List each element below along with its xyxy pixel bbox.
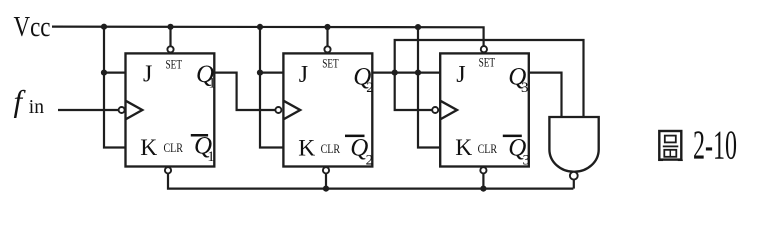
SET bubble U1: [167, 46, 173, 52]
wire J/K rail FF1: [104, 27, 126, 148]
NAND output bubble: [570, 172, 578, 180]
svg-text:1: 1: [207, 149, 215, 165]
wire Q2 to J input FF3: [372, 71, 440, 73]
svg-text:in: in: [29, 97, 44, 118]
svg-text:SET: SET: [479, 55, 496, 70]
svg-text:1: 1: [208, 76, 216, 92]
junction dot Q2 branch: [392, 70, 398, 76]
wire Q2 to clock FF3: [395, 73, 433, 110]
wire J/K rail FF2: [260, 27, 283, 148]
svg-text:2-10: 2-10: [693, 122, 737, 168]
svg-text:K: K: [298, 136, 315, 162]
wire SET stub FF1: [169, 27, 171, 47]
CLR bubble U3: [480, 167, 486, 173]
junction dot Vcc-SET1: [167, 24, 173, 30]
caption figure character (CJK tu) drawn as strokes: [658, 131, 683, 160]
clock bubble U1: [119, 107, 125, 113]
wire Q2 to NAND input: [395, 40, 584, 117]
junction dot Vcc-SET2: [324, 24, 330, 30]
svg-text:CLR: CLR: [164, 140, 184, 155]
wire fin to clock FF1: [58, 109, 119, 111]
svg-text:CLR: CLR: [478, 141, 498, 156]
SET bubble U2: [324, 46, 330, 52]
svg-text:3: 3: [521, 80, 529, 96]
NAND gate U4: [549, 117, 598, 172]
junction dot Vcc-rail2: [257, 24, 263, 30]
clock triangle U3: [440, 101, 457, 120]
svg-text:J: J: [299, 62, 308, 88]
label Q2bar: [345, 135, 365, 138]
wire Vcc rail: [52, 27, 484, 47]
svg-text:f: f: [14, 84, 27, 119]
svg-text:3: 3: [523, 153, 531, 169]
svg-text:J: J: [456, 62, 465, 88]
junction dot CLR2: [323, 186, 329, 192]
junction dot Vcc-rail1: [101, 24, 107, 30]
wire J input FF1: [104, 71, 126, 73]
flip-flop U3 box: [440, 53, 529, 166]
wire NAND output: [573, 180, 575, 189]
svg-text:SET: SET: [166, 56, 183, 71]
junction dot CLR3: [480, 186, 486, 192]
CLR bubble U2: [323, 167, 329, 173]
wire Q3 to NAND input: [529, 73, 562, 117]
svg-text:CLR: CLR: [321, 141, 341, 156]
clock bubble U3: [432, 107, 438, 113]
label Q3bar: [503, 135, 522, 138]
wire CLR drop FF1: [168, 174, 573, 189]
wire CLR drop FF2: [325, 174, 327, 189]
svg-text:SET: SET: [322, 56, 339, 71]
wire J input FF2: [260, 71, 283, 73]
svg-text:K: K: [455, 135, 472, 161]
label Q1bar: [191, 134, 208, 137]
junction dot J2: [257, 70, 263, 76]
junction dot J1: [101, 70, 107, 76]
svg-text:Vcc: Vcc: [14, 11, 51, 43]
clock triangle U2: [283, 101, 300, 120]
wire CLR drop FF3: [482, 174, 484, 189]
SET bubble U3: [481, 46, 487, 52]
wire SET stub FF2: [326, 27, 328, 46]
junction dot Vcc-rail3: [415, 24, 421, 30]
junction dot J3: [415, 70, 421, 76]
svg-text:2: 2: [366, 153, 374, 169]
svg-text:2: 2: [366, 80, 374, 96]
svg-text:K: K: [140, 135, 157, 161]
CLR bubble U1: [165, 167, 171, 173]
clock bubble U2: [275, 107, 281, 113]
clock triangle U1: [126, 101, 143, 120]
wire J/K rail FF3: [418, 27, 440, 147]
flip-flop U1 box: [126, 53, 215, 166]
wire Q1 to clock FF2: [214, 73, 275, 110]
flip-flop U2 box: [283, 53, 372, 166]
svg-text:J: J: [143, 61, 152, 87]
